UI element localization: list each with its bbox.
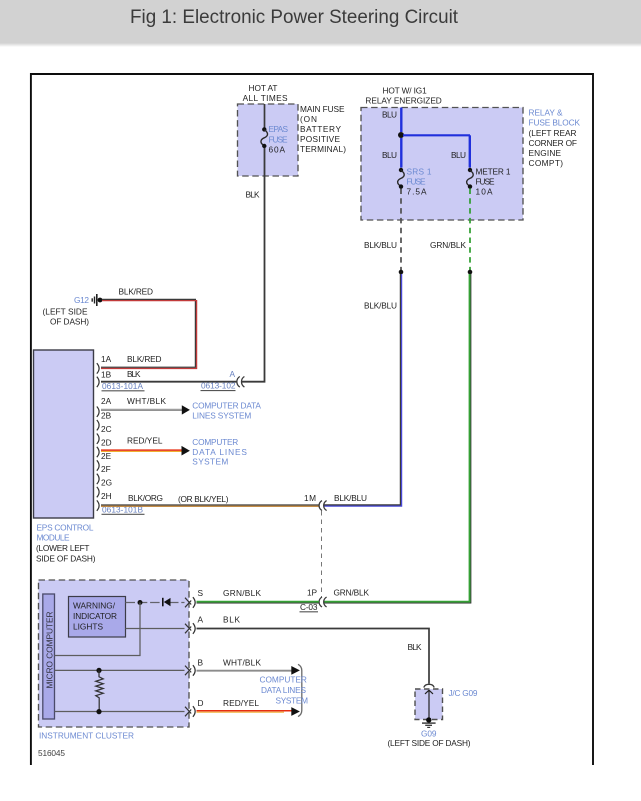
- wire warning to A pin: [126, 628, 185, 630]
- title bar: [0, 0, 641, 43]
- wire BLK/BLU solid down and left to 1M: [324, 274, 402, 506]
- label SRS 1 FUSE 7.5A: [407, 167, 432, 197]
- fuse box: RELAY & FUSE BLOCK: [361, 108, 523, 221]
- svg-text:COMPUTER: COMPUTER: [192, 437, 238, 447]
- svg-text:BLK/BLU: BLK/BLU: [334, 493, 367, 503]
- label COMPUTER DATA LINES SYSTEM: [260, 675, 309, 706]
- svg-text:WHT/BLK: WHT/BLK: [223, 658, 261, 668]
- svg-text:(LEFT SIDE: (LEFT SIDE: [43, 307, 88, 317]
- label METER 1 FUSE 10A: [476, 167, 511, 197]
- svg-text:1B: 1B: [101, 370, 112, 380]
- svg-text:BLK: BLK: [223, 615, 240, 625]
- pin D chevron and arc: [185, 706, 195, 717]
- wire BLU down to METER 1 fuse: [469, 135, 471, 167]
- wire dashed C-03 link: [321, 511, 323, 597]
- pin 1A arc: [97, 363, 99, 373]
- svg-text:FUSE: FUSE: [407, 177, 426, 187]
- svg-text:BLK: BLK: [127, 369, 141, 379]
- svg-text:MICRO COMPUTER: MICRO COMPUTER: [44, 612, 54, 689]
- svg-text:2E: 2E: [101, 451, 112, 461]
- wire BLK from box top to fuse: [264, 104, 266, 128]
- label WARNING/ INDICATOR LIGHTS: [73, 601, 117, 632]
- wire BLK/ORG pin 2H: [101, 505, 319, 506]
- wire junction to micro computer: [55, 603, 141, 656]
- svg-text:(OR BLK/YEL): (OR BLK/YEL): [178, 494, 229, 504]
- pin labels 1A-2H: [101, 354, 112, 501]
- instrument cluster box: [39, 580, 190, 727]
- svg-text:EPAS: EPAS: [269, 124, 289, 134]
- pin 1B arc: [97, 377, 99, 387]
- pin labels S A B D: [198, 588, 204, 708]
- wire BLU horizontal: [403, 134, 470, 136]
- wire WHT/BLK pin 2A: [101, 409, 183, 410]
- wire BLK pin 1B: [101, 381, 237, 383]
- svg-text:60A: 60A: [269, 145, 286, 155]
- svg-text:1P: 1P: [307, 588, 317, 598]
- ground G09: [422, 723, 436, 727]
- wire GRN/BLK solid down and left to 1P: [324, 274, 471, 603]
- fuse EPAS FUSE 60A: [261, 127, 268, 148]
- svg-text:EPS CONTROL: EPS CONTROL: [37, 523, 94, 533]
- svg-text:1M: 1M: [304, 493, 316, 503]
- svg-text:POSITIVE: POSITIVE: [300, 134, 340, 144]
- svg-text:COMPUTER: COMPUTER: [260, 675, 307, 685]
- svg-text:10A: 10A: [476, 187, 493, 197]
- svg-text:BLK: BLK: [408, 642, 422, 652]
- warning indicator lights box: [69, 597, 126, 638]
- svg-text:LIGHTS: LIGHTS: [73, 622, 103, 632]
- pin 2B arc: [97, 420, 99, 430]
- svg-text:SIDE OF DASH): SIDE OF DASH): [36, 554, 96, 564]
- svg-text:RED/YEL: RED/YEL: [127, 436, 163, 446]
- label EPAS FUSE 60A: [269, 124, 289, 155]
- svg-text:SRS 1: SRS 1: [407, 167, 432, 177]
- svg-text:BATTERY: BATTERY: [300, 124, 341, 134]
- svg-text:BLK: BLK: [246, 190, 260, 200]
- svg-text:BLU: BLU: [382, 150, 397, 160]
- svg-text:SYSTEM: SYSTEM: [276, 696, 309, 706]
- label HOT AT ALL TIMES: [243, 83, 288, 103]
- svg-text:J/C G09: J/C G09: [449, 688, 478, 698]
- wire GRN/BLK dashed from METER fuse: [469, 189, 471, 271]
- wire BLU vertical into box: [400, 108, 402, 133]
- svg-text:MODULE: MODULE: [37, 533, 70, 543]
- wire RED/YEL D row: [197, 711, 292, 712]
- svg-text:(ON: (ON: [300, 114, 317, 124]
- svg-text:TERMINAL): TERMINAL): [300, 144, 346, 154]
- wire GRN/BLK S row: [197, 602, 320, 603]
- junction dot: [138, 600, 143, 605]
- svg-text:2H: 2H: [101, 491, 112, 501]
- svg-text:S: S: [198, 588, 204, 598]
- pin S chevron and arc: [185, 597, 195, 608]
- pin 2H arc: [97, 500, 99, 510]
- label RELAY & FUSE BLOCK (LEFT REAR CORNER OF ENGINE COMPT): [529, 108, 581, 169]
- svg-text:2C: 2C: [101, 424, 112, 434]
- svg-text:A: A: [230, 369, 236, 379]
- svg-text:GRN/BLK: GRN/BLK: [430, 240, 466, 250]
- svg-text:COMPT): COMPT): [529, 158, 564, 168]
- svg-text:BLU: BLU: [382, 110, 397, 120]
- connector 1P C-03: [300, 588, 370, 613]
- junction dot D: [96, 709, 101, 714]
- junction node GRN/BLK: [468, 270, 473, 275]
- svg-text:LINES SYSTEM: LINES SYSTEM: [192, 411, 251, 421]
- svg-text:GRN/BLK: GRN/BLK: [334, 588, 370, 598]
- wire micro to D pin: [55, 711, 185, 713]
- connector 0613-102 pin A: [201, 369, 245, 391]
- svg-text:INSTRUMENT CLUSTER: INSTRUMENT CLUSTER: [39, 731, 134, 741]
- svg-text:MAIN FUSE: MAIN FUSE: [300, 104, 345, 114]
- arrow B to computer data lines: [291, 666, 300, 675]
- svg-text:2G: 2G: [101, 478, 112, 488]
- svg-text:SYSTEM: SYSTEM: [192, 457, 228, 467]
- svg-text:516045: 516045: [38, 748, 65, 758]
- svg-text:FUSE: FUSE: [476, 177, 495, 187]
- svg-text:2D: 2D: [101, 437, 112, 447]
- pin B chevron and arc: [185, 665, 195, 676]
- svg-text:BLK/RED: BLK/RED: [127, 354, 162, 364]
- svg-text:FUSE: FUSE: [269, 135, 288, 145]
- svg-text:COMPUTER DATA: COMPUTER DATA: [192, 401, 261, 411]
- pin 2D arc: [97, 447, 99, 457]
- svg-text:2A: 2A: [101, 396, 112, 406]
- svg-text:G09: G09: [421, 729, 437, 739]
- svg-text:OF DASH): OF DASH): [50, 317, 89, 327]
- svg-text:C-03: C-03: [300, 602, 318, 612]
- wire BLK/BLU dashed from SRS fuse: [400, 189, 402, 271]
- arrow to computer data lines: [182, 446, 190, 456]
- svg-text:1A: 1A: [101, 354, 112, 364]
- fuse SRS 1 FUSE 7.5A: [398, 168, 405, 189]
- pin A chevron and arc: [185, 623, 195, 634]
- EPS control module box: [34, 350, 94, 518]
- arrow to computer data lines: [182, 405, 190, 414]
- svg-text:BLK/RED: BLK/RED: [119, 287, 154, 297]
- svg-text:2B: 2B: [101, 411, 112, 421]
- svg-text:BLK/BLU: BLK/BLU: [364, 240, 397, 250]
- svg-text:WARNING/: WARNING/: [73, 601, 116, 611]
- wire BLU down to SRS 1 fuse: [400, 138, 402, 168]
- label MAIN FUSE (ON BATTERY POSITIVE TERMINAL): [300, 104, 346, 154]
- wire WHT/BLK B row: [197, 670, 292, 671]
- diagram frame: [31, 74, 593, 765]
- junction connector J/C G09: [415, 684, 443, 722]
- pin 2G arc: [97, 487, 99, 497]
- junction node BLK/BLU: [399, 270, 404, 275]
- wire BLK/RED from G12 to pin 1A: [101, 299, 197, 368]
- svg-text:DATA LINES: DATA LINES: [261, 685, 306, 695]
- svg-text:RELAY ENERGIZED: RELAY ENERGIZED: [365, 96, 441, 106]
- svg-text:METER 1: METER 1: [476, 167, 511, 177]
- arrow D to computer data lines: [291, 707, 300, 716]
- pin 2F arc: [97, 474, 99, 484]
- ground G12: [92, 294, 102, 306]
- svg-text:CORNER OF: CORNER OF: [529, 138, 578, 148]
- svg-text:WHT/BLK: WHT/BLK: [127, 396, 166, 406]
- svg-text:HOT AT: HOT AT: [249, 83, 278, 93]
- pin 2E arc: [97, 460, 99, 470]
- wire RED/YEL pin 2D: [101, 450, 183, 451]
- label G12 (LEFT SIDE OF DASH): [43, 295, 90, 327]
- pin 2C arc: [97, 434, 99, 444]
- svg-text:(LEFT REAR: (LEFT REAR: [529, 128, 577, 138]
- connector 1M: [304, 493, 367, 511]
- svg-text:BLU: BLU: [451, 150, 466, 160]
- label EPS CONTROL MODULE (LOWER LEFT SIDE OF DASH): [36, 523, 96, 564]
- svg-text:RED/YEL: RED/YEL: [223, 698, 259, 708]
- svg-text:DATA LINES: DATA LINES: [192, 447, 247, 457]
- svg-text:2F: 2F: [101, 464, 111, 474]
- svg-text:INDICATOR: INDICATOR: [73, 611, 117, 621]
- label HOT W/ IG1 RELAY ENERGIZED: [365, 86, 441, 106]
- fuse METER 1 FUSE 10A: [467, 168, 474, 189]
- resistor R1: [96, 670, 103, 711]
- junction dot B: [96, 668, 101, 673]
- svg-text:RELAY &: RELAY &: [529, 108, 563, 118]
- svg-text:7.5A: 7.5A: [407, 187, 427, 197]
- diode D1: [162, 598, 185, 607]
- svg-text:HOT W/ IG1: HOT W/ IG1: [383, 86, 428, 96]
- label COMPUTER DATA LINES SYSTEM: [192, 437, 247, 467]
- connector 0613-101A: [102, 381, 145, 391]
- svg-text:G12: G12: [74, 295, 89, 305]
- wire warning to S pin: [126, 602, 163, 604]
- junction dot: [398, 132, 404, 138]
- micro computer box: [43, 594, 55, 719]
- wire BLK A row to J/C G09: [197, 629, 430, 684]
- svg-text:BLK/ORG: BLK/ORG: [128, 493, 163, 503]
- svg-text:D: D: [198, 698, 204, 708]
- connector 0613-101B: [102, 505, 145, 515]
- svg-text:(LOWER LEFT: (LOWER LEFT: [36, 543, 90, 553]
- svg-text:0613-102: 0613-102: [201, 381, 236, 391]
- svg-text:BLK/BLU: BLK/BLU: [364, 301, 397, 311]
- svg-text:(LEFT SIDE OF DASH): (LEFT SIDE OF DASH): [388, 738, 471, 748]
- svg-text:ENGINE: ENGINE: [529, 148, 562, 158]
- svg-text:ALL TIMES: ALL TIMES: [243, 93, 288, 103]
- label COMPUTER DATA LINES SYSTEM: [192, 401, 261, 421]
- svg-text:Fig 1: Electronic Power Steeri: Fig 1: Electronic Power Steering Circuit: [130, 6, 459, 28]
- wire BLK from fuse down to 0613-102 connector: [242, 148, 265, 382]
- svg-text:A: A: [198, 615, 204, 625]
- svg-text:GRN/BLK: GRN/BLK: [223, 588, 261, 598]
- brace to system: [298, 664, 302, 716]
- pin 2A arc: [97, 407, 99, 417]
- svg-text:FUSE BLOCK: FUSE BLOCK: [529, 118, 581, 128]
- svg-text:B: B: [198, 658, 204, 668]
- wire micro to B pin: [55, 669, 185, 671]
- fuse box: MAIN FUSE (EPAS): [238, 104, 299, 176]
